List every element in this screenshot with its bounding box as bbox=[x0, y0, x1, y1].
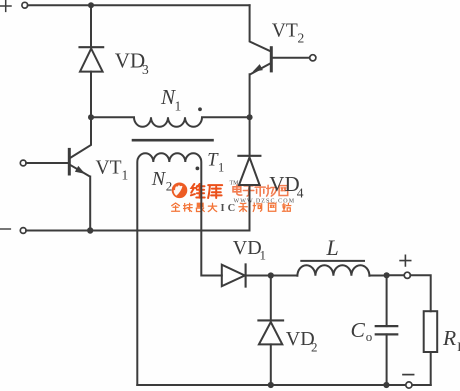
svg-text:1: 1 bbox=[175, 99, 182, 114]
node junction VT2 emitter / N1 right bbox=[247, 114, 253, 120]
resistor RL bbox=[424, 311, 438, 352]
watermark char wei bbox=[191, 184, 205, 198]
terminal VT1 base bbox=[20, 160, 26, 166]
minus sign input bottom-left bbox=[0, 228, 10, 230]
wire VD4 bbox=[249, 117, 251, 156]
transformer T1 core bbox=[133, 139, 213, 142]
node junction L right / Co top bbox=[384, 272, 390, 278]
watermark char zui bbox=[196, 203, 204, 211]
inductor L bbox=[271, 265, 387, 276]
transistor VT1 bbox=[68, 149, 71, 174]
node junction VD2 bottom bbox=[268, 382, 274, 388]
wire VT2 collector feed bbox=[250, 5, 272, 51]
capacitor Co bbox=[386, 275, 388, 326]
svg-text:1: 1 bbox=[260, 248, 267, 263]
svg-text:VD: VD bbox=[269, 172, 299, 196]
wire bottom rail bbox=[137, 384, 430, 386]
winding N2 bbox=[137, 153, 222, 385]
transistor VT2 bbox=[270, 48, 273, 71]
watermark char gou bbox=[253, 203, 262, 211]
svg-text:C: C bbox=[351, 318, 366, 342]
svg-text:3: 3 bbox=[142, 62, 149, 77]
watermark char shi bbox=[255, 185, 265, 196]
svg-text:o: o bbox=[366, 329, 373, 344]
watermark char zi bbox=[243, 186, 253, 196]
svg-text:VD: VD bbox=[115, 49, 145, 73]
watermark char da bbox=[208, 203, 216, 211]
diode VD2 bbox=[270, 276, 272, 321]
minus sign output bbox=[403, 374, 414, 376]
watermark char quan bbox=[172, 203, 180, 211]
node junction VD1 cathode bbox=[268, 272, 274, 278]
wire VD3 anode down bbox=[90, 72, 92, 118]
wire VD4 anode down bbox=[249, 185, 251, 231]
node junction top VD3 bbox=[88, 2, 94, 8]
wire to + output bbox=[387, 274, 405, 276]
polarity dot N2 bbox=[196, 167, 200, 171]
node junction VT1 emitter bbox=[87, 227, 93, 233]
svg-text:L: L bbox=[326, 235, 339, 260]
watermark char zhan bbox=[282, 203, 290, 211]
svg-text:1: 1 bbox=[218, 161, 224, 175]
watermark logo bbox=[172, 183, 188, 199]
svg-text:2: 2 bbox=[298, 31, 305, 46]
wire output right corner bbox=[410, 275, 430, 311]
watermark char wang bbox=[279, 186, 288, 196]
svg-text:VT: VT bbox=[272, 20, 298, 41]
node junction Co bottom bbox=[383, 382, 389, 388]
terminal input top-left bbox=[22, 2, 28, 8]
terminal output plus bbox=[404, 272, 410, 278]
plus sign input top-left bbox=[1, 1, 12, 12]
watermark char qiu bbox=[184, 203, 193, 211]
svg-text:2: 2 bbox=[311, 340, 318, 355]
polarity dot N1 bbox=[198, 107, 202, 111]
node junction N1 left bbox=[88, 114, 94, 120]
svg-text:VT: VT bbox=[96, 158, 122, 179]
watermark char dian bbox=[233, 185, 242, 195]
svg-text:R: R bbox=[442, 326, 456, 350]
svg-text:1: 1 bbox=[122, 168, 129, 183]
plus sign output bbox=[400, 255, 411, 266]
wire RL bottom bbox=[430, 352, 432, 385]
terminal VT2 base bbox=[310, 55, 316, 61]
watermark char chang bbox=[267, 185, 277, 196]
svg-text:N: N bbox=[151, 168, 167, 190]
svg-text:4: 4 bbox=[297, 186, 304, 201]
winding N1 bbox=[91, 117, 250, 127]
wire bottom input rail bbox=[26, 230, 249, 232]
svg-text:2: 2 bbox=[166, 179, 173, 194]
diode VD4 bbox=[238, 155, 260, 157]
terminal output minus bbox=[406, 382, 412, 388]
watermark char cai bbox=[239, 203, 247, 211]
watermark char ku bbox=[208, 185, 222, 198]
wire VT1 base bbox=[26, 162, 67, 164]
diode VD1 bbox=[222, 265, 245, 287]
diode VD3 bbox=[80, 46, 104, 48]
wire top rail bbox=[28, 4, 250, 6]
svg-text:IC: IC bbox=[221, 203, 239, 214]
watermark char wang2 bbox=[268, 203, 275, 211]
svg-text:VD: VD bbox=[233, 237, 262, 259]
inductor L core bar bbox=[301, 260, 364, 262]
wire VD3 top bbox=[90, 5, 92, 47]
terminal input bottom-left bbox=[20, 228, 26, 234]
